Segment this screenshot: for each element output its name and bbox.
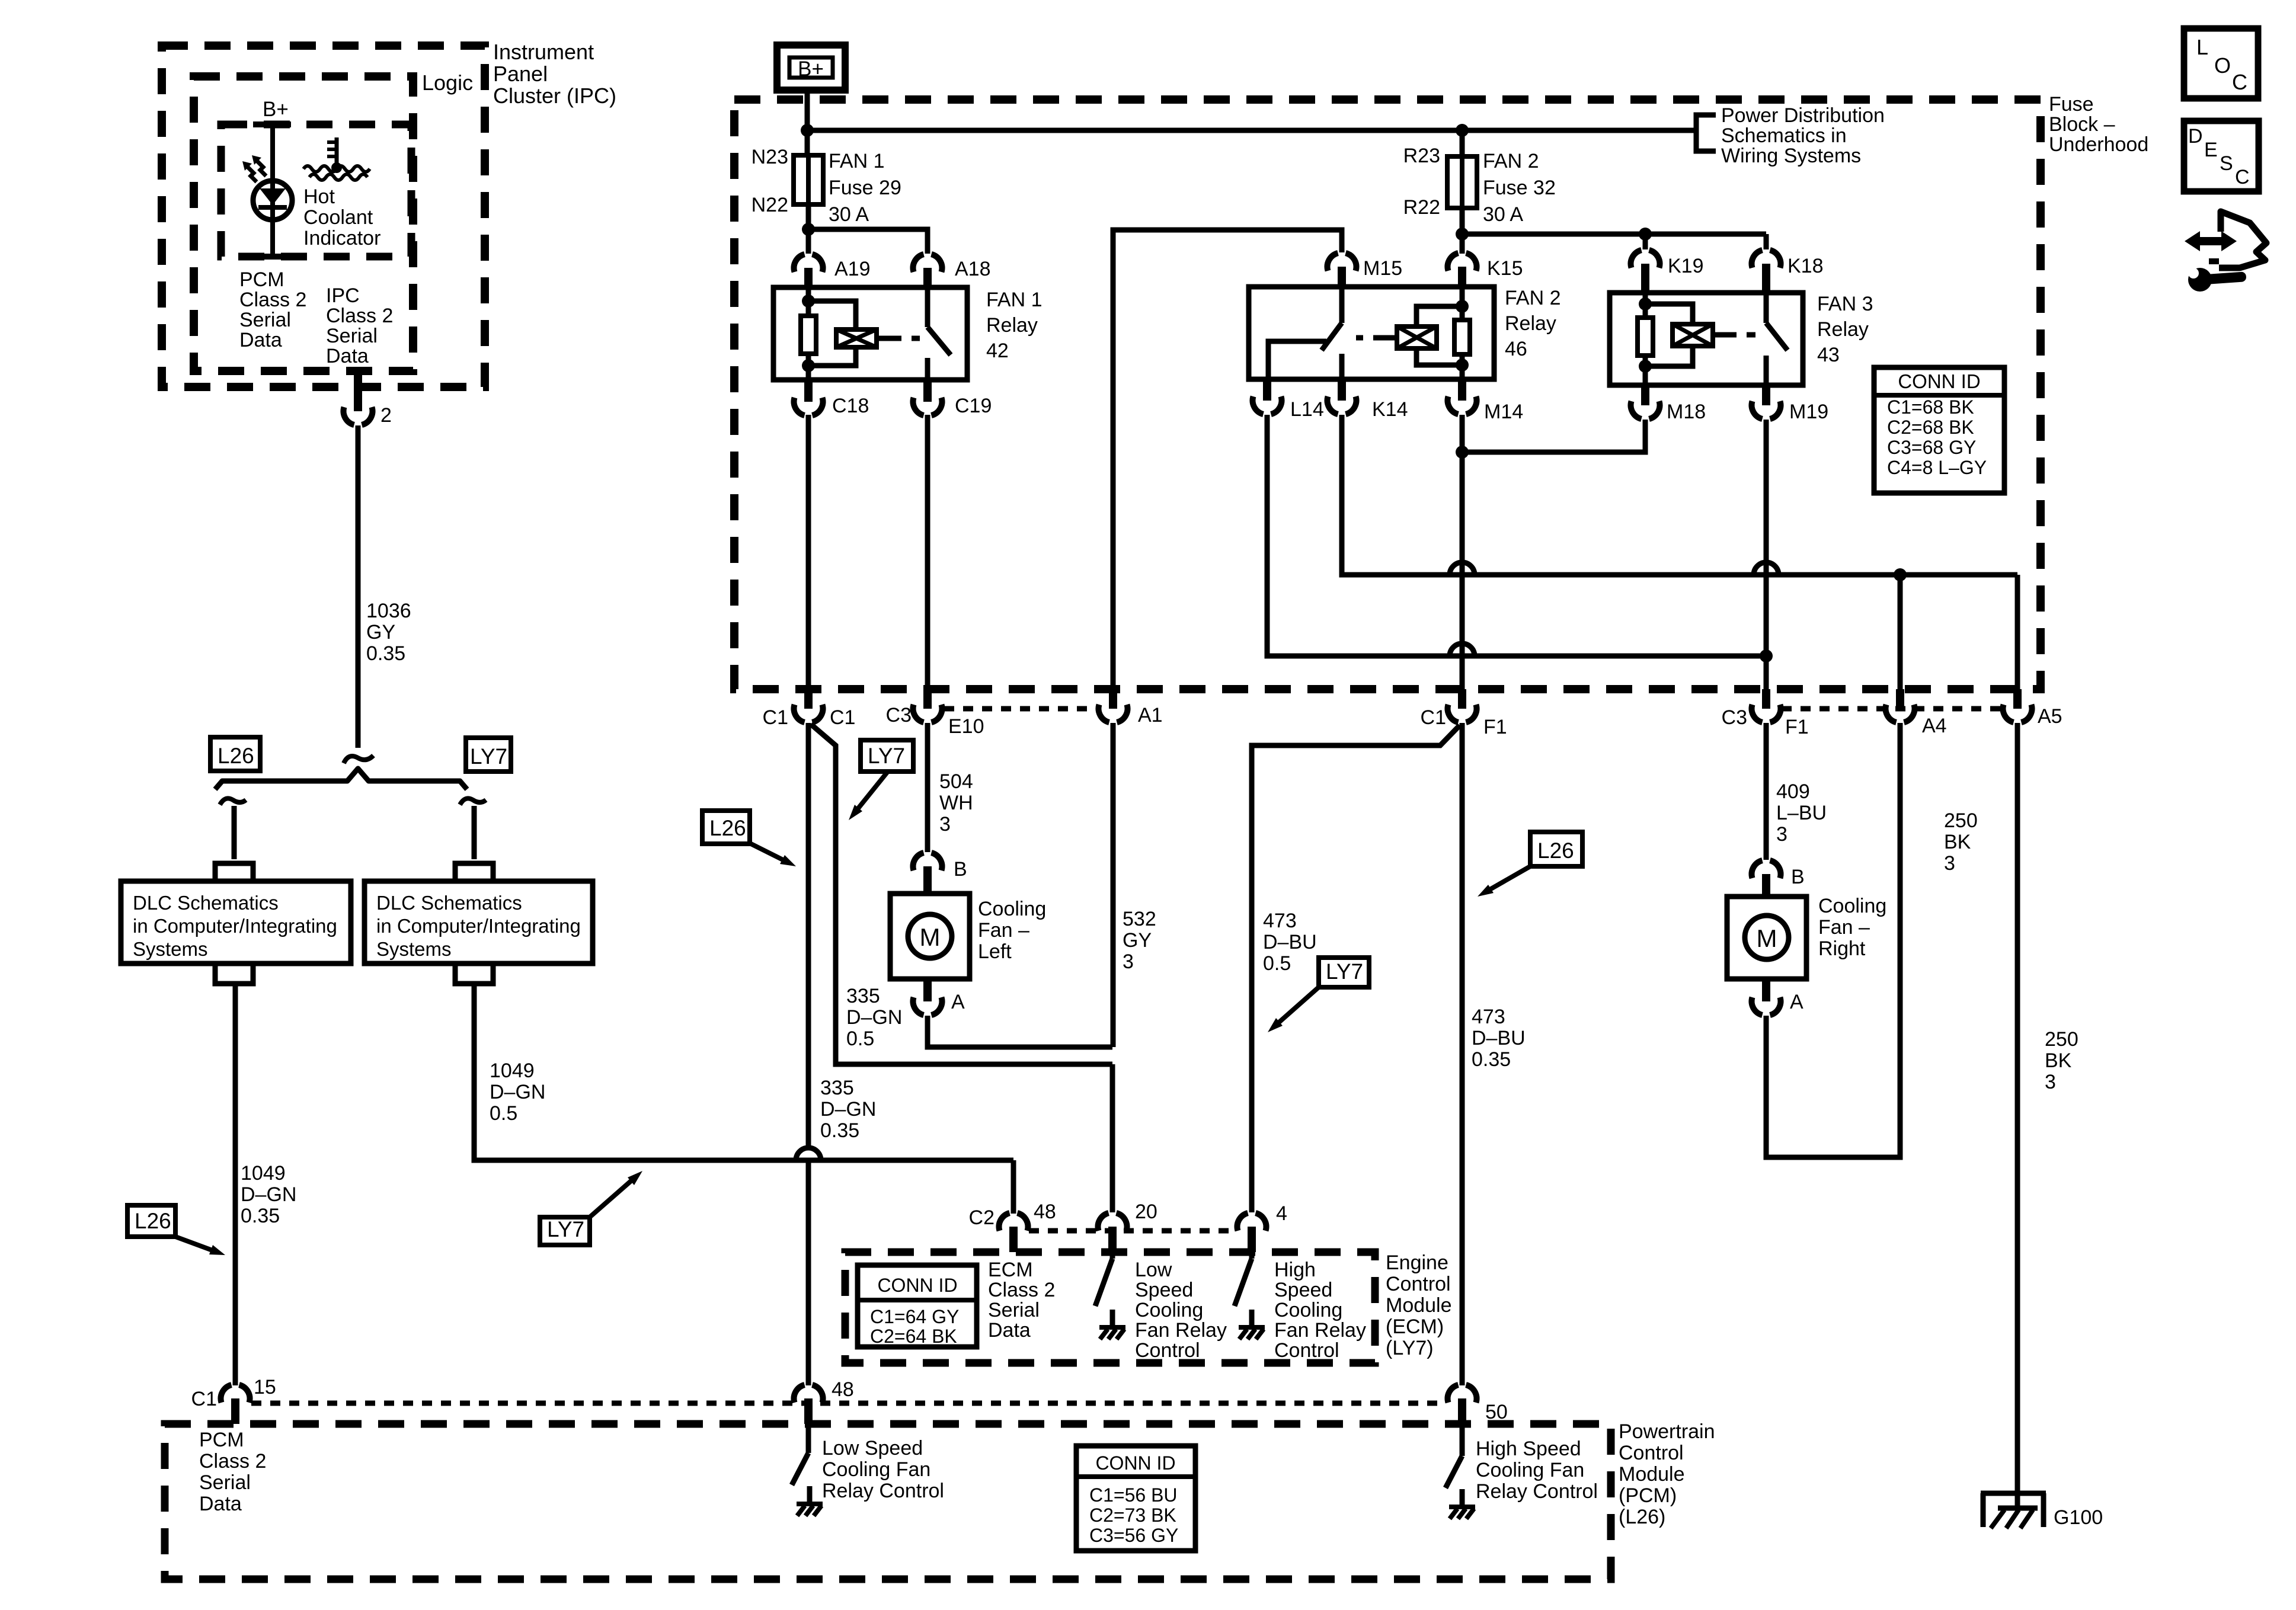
- relay K46 FAN 2 Relay box: [1249, 287, 1494, 379]
- svg-text:in Computer/Integrating: in Computer/Integrating: [376, 915, 581, 937]
- svg-text:A18: A18: [955, 258, 991, 280]
- svg-text:GY: GY: [1123, 929, 1152, 952]
- wire: splice to right DLC branch: [472, 806, 477, 859]
- box: hot coolant indicator cell: [221, 124, 411, 257]
- svg-text:C: C: [2232, 70, 2247, 94]
- svg-text:E: E: [2204, 139, 2218, 161]
- svg-text:Serial: Serial: [239, 309, 291, 331]
- svg-text:R22: R22: [1403, 196, 1440, 219]
- wire 409 L-BU from C3/F1 to right fan B: [1764, 723, 1769, 860]
- wire 473 D-BU 0.35 from C1/F1 to PCM 50: [1460, 723, 1465, 1385]
- wire C1 branch to ECM 20 (LY7): [811, 724, 1112, 1064]
- svg-text:42: 42: [986, 340, 1009, 362]
- bar: LED cathode rail: [253, 254, 291, 260]
- wire fuse29 to relay42 junction: [806, 204, 811, 229]
- wire 504 WH from E10 to left fan B: [925, 723, 930, 852]
- svg-text:Control: Control: [1386, 1273, 1451, 1295]
- svg-text:Cooling: Cooling: [1135, 1299, 1203, 1321]
- svg-text:Fan Relay: Fan Relay: [1274, 1319, 1366, 1342]
- wire 532 GY from A1: [1111, 723, 1116, 1047]
- arrow LY7 to wire: [590, 1179, 634, 1217]
- box: Powertrain Control Module (PCM): [165, 1424, 1611, 1579]
- splice break hook at top of bus: [344, 756, 373, 763]
- svg-text:(PCM): (PCM): [1619, 1484, 1677, 1507]
- connector A4: [1896, 689, 1904, 709]
- connector A1: [1109, 689, 1117, 709]
- wire fuse29 feed: [805, 130, 810, 155]
- svg-text:C3: C3: [886, 704, 912, 726]
- svg-text:Module: Module: [1386, 1294, 1452, 1317]
- wire M18 coil return to M14: [1462, 420, 1645, 452]
- terminal C19: [923, 380, 932, 402]
- box: Fuse Block - Underhood: [734, 100, 2041, 689]
- svg-text:0.35: 0.35: [1472, 1048, 1511, 1071]
- wire junction to A18: [808, 229, 928, 254]
- svg-text:250: 250: [2045, 1028, 2078, 1051]
- svg-text:PCM: PCM: [199, 1429, 244, 1451]
- svg-text:3: 3: [1776, 823, 1787, 846]
- svg-text:Relay: Relay: [1817, 318, 1869, 341]
- svg-text:D–GN: D–GN: [490, 1081, 545, 1103]
- motor: Cooling Fan - Right: [1727, 897, 1806, 979]
- wire M14 to fuse block connector C1/F1: [1460, 415, 1465, 689]
- svg-text:D–BU: D–BU: [1263, 931, 1317, 953]
- svg-text:FAN 3: FAN 3: [1817, 293, 1873, 315]
- dotted connector line PCM: [251, 1401, 1446, 1406]
- svg-text:Serial: Serial: [988, 1299, 1040, 1321]
- wire B+ to rail: [805, 90, 810, 130]
- connector pin 48 (PCM): [794, 1385, 823, 1403]
- svg-text:Cooling Fan: Cooling Fan: [1476, 1459, 1584, 1481]
- svg-text:Wiring Systems: Wiring Systems: [1721, 145, 1861, 167]
- svg-text:Low: Low: [1135, 1259, 1172, 1281]
- svg-text:R23: R23: [1403, 145, 1440, 167]
- svg-text:48: 48: [1034, 1201, 1056, 1223]
- svg-text:Powertrain: Powertrain: [1619, 1420, 1715, 1443]
- relay43 switch: [1764, 293, 1769, 323]
- node B+ (battery feed): [777, 45, 845, 90]
- svg-text:C2=68 BK: C2=68 BK: [1887, 417, 1974, 438]
- conn id table (PCM): [1076, 1446, 1195, 1551]
- fuse F29 FAN 1 30A: [794, 155, 823, 204]
- svg-text:C1: C1: [763, 706, 788, 729]
- svg-text:G100: G100: [2054, 1506, 2103, 1529]
- svg-text:C1: C1: [191, 1388, 217, 1410]
- wire 1049 D-GN 0.5 to ECM C2-48: [474, 984, 1013, 1160]
- svg-text:WH: WH: [939, 792, 973, 814]
- svg-text:0.35: 0.35: [366, 642, 405, 665]
- svg-text:250: 250: [1944, 809, 1978, 832]
- svg-text:Class 2: Class 2: [988, 1279, 1055, 1301]
- relay42 coil branch wires: [806, 287, 811, 301]
- svg-text:Fuse 32: Fuse 32: [1483, 177, 1556, 199]
- indicator LED - hot coolant: [253, 181, 292, 220]
- svg-text:335: 335: [846, 985, 880, 1007]
- conn id table (ECM): [858, 1265, 977, 1347]
- svg-text:1049: 1049: [490, 1060, 535, 1082]
- svg-text:Fan Relay: Fan Relay: [1135, 1319, 1227, 1342]
- svg-text:Relay: Relay: [986, 314, 1038, 337]
- wire fuse32 feed: [1460, 130, 1465, 156]
- code box L26 (right): [1530, 832, 1582, 866]
- wire L14 to right fan feed: [1267, 415, 1766, 656]
- wire: IPC lamp feed: [270, 124, 275, 254]
- svg-text:30 A: 30 A: [829, 203, 869, 226]
- svg-text:43: 43: [1817, 344, 1840, 366]
- svg-text:M: M: [920, 923, 941, 951]
- svg-text:L–BU: L–BU: [1776, 802, 1827, 824]
- relay K43 FAN 3 Relay box: [1610, 293, 1803, 385]
- svg-text:Power Distribution: Power Distribution: [1721, 104, 1885, 127]
- dotted connector line E10-A1: [944, 706, 1098, 712]
- svg-text:Control: Control: [1135, 1339, 1200, 1362]
- relay43 coil branch: [1643, 293, 1648, 304]
- wire to A4: [1898, 575, 1903, 689]
- svg-text:Cooling: Cooling: [1274, 1299, 1342, 1321]
- wire to K18: [1764, 234, 1769, 249]
- wire K14 to ground feeds A4/A5: [1342, 415, 2017, 575]
- terminal B (right fan): [1752, 860, 1781, 878]
- wire 335 D-GN 0.35 from C1 to PCM 48: [806, 723, 811, 1148]
- svg-text:LY7: LY7: [547, 1217, 584, 1241]
- box: DLC Schematics (ECM LY7): [364, 881, 593, 964]
- svg-text:Logic: Logic: [422, 71, 473, 95]
- svg-text:C: C: [2235, 166, 2250, 188]
- svg-text:409: 409: [1776, 780, 1810, 803]
- svg-text:473: 473: [1472, 1006, 1505, 1028]
- svg-text:Systems: Systems: [376, 938, 452, 960]
- svg-text:0.5: 0.5: [1263, 952, 1291, 975]
- svg-text:LY7: LY7: [1326, 959, 1363, 984]
- terminal M14: [1458, 379, 1466, 401]
- terminal A (left fan): [923, 979, 932, 1001]
- svg-text:Serial: Serial: [199, 1471, 251, 1494]
- svg-text:High: High: [1274, 1259, 1316, 1281]
- svg-text:(L26): (L26): [1619, 1506, 1665, 1528]
- svg-text:50: 50: [1485, 1401, 1508, 1423]
- wire to A5: [2015, 575, 2020, 689]
- relay42 switch: [925, 287, 930, 327]
- node B+ (IPC): [253, 121, 291, 127]
- svg-text:Relay Control: Relay Control: [822, 1480, 944, 1502]
- conn id table (fuse block): [1874, 367, 2004, 493]
- svg-text:A19: A19: [834, 258, 871, 280]
- wire 335 D-GN 0.5 fan A to A1/532: [928, 1016, 1112, 1047]
- svg-text:Cooling: Cooling: [978, 898, 1046, 920]
- svg-text:(ECM): (ECM): [1386, 1315, 1444, 1338]
- switch: ECM high speed relay driver: [1249, 1252, 1255, 1259]
- svg-text:E10: E10: [948, 715, 984, 738]
- svg-text:Relay Control: Relay Control: [1476, 1480, 1598, 1503]
- svg-text:0.35: 0.35: [820, 1119, 859, 1142]
- arrow L26 to wire: [175, 1237, 214, 1251]
- svg-text:Cluster (IPC): Cluster (IPC): [493, 84, 616, 108]
- icon: coolant thermometer: [335, 137, 339, 167]
- relay46 resistor: [1454, 320, 1470, 354]
- terminal K19: [1631, 250, 1660, 268]
- svg-text:L26: L26: [709, 816, 746, 840]
- svg-text:Fan –: Fan –: [1818, 916, 1870, 939]
- svg-text:B: B: [1791, 866, 1805, 888]
- connector pin 4 (ECM): [1237, 1213, 1267, 1231]
- wire: splice to left DLC branch: [232, 806, 237, 859]
- box: Instrument Panel Cluster (IPC): [162, 46, 485, 387]
- svg-text:C1=56 BU: C1=56 BU: [1089, 1484, 1178, 1506]
- svg-text:C2: C2: [969, 1206, 994, 1229]
- svg-text:30 A: 30 A: [1483, 203, 1523, 226]
- svg-text:C3=68 GY: C3=68 GY: [1887, 437, 1976, 458]
- svg-text:CONN ID: CONN ID: [1095, 1452, 1175, 1474]
- svg-text:LY7: LY7: [470, 744, 507, 769]
- svg-text:N22: N22: [752, 194, 788, 216]
- svg-text:CONN ID: CONN ID: [1898, 370, 1980, 392]
- svg-text:(LY7): (LY7): [1386, 1337, 1434, 1359]
- svg-text:A: A: [951, 991, 965, 1013]
- svg-text:M18: M18: [1667, 401, 1706, 423]
- ground (ECM high speed): [1239, 1325, 1265, 1330]
- legend box DESC: [2184, 121, 2259, 191]
- svg-text:C4=8 L–GY: C4=8 L–GY: [1887, 457, 1987, 478]
- svg-text:Left: Left: [978, 940, 1012, 963]
- terminal bracket below right DLC box: [455, 964, 493, 984]
- svg-text:GY: GY: [366, 621, 395, 644]
- terminal A18: [913, 254, 942, 272]
- svg-text:L26: L26: [1537, 838, 1574, 863]
- svg-text:Data: Data: [326, 345, 369, 367]
- svg-text:L14: L14: [1290, 398, 1324, 421]
- wire 473 D-BU 0.5 branch to ECM 4: [1252, 725, 1460, 1212]
- svg-text:473: 473: [1263, 910, 1297, 932]
- svg-text:Class 2: Class 2: [239, 289, 306, 311]
- wire junction to A19: [806, 229, 811, 254]
- terminal M15: [1328, 253, 1357, 271]
- svg-text:C1: C1: [830, 706, 855, 729]
- svg-text:L: L: [2196, 35, 2208, 59]
- svg-text:A4: A4: [1922, 715, 1947, 737]
- svg-text:Cooling: Cooling: [1818, 895, 1886, 917]
- icon: double arrow with wrench: [2185, 231, 2237, 251]
- svg-text:M: M: [1757, 924, 1777, 952]
- svg-text:K18: K18: [1787, 255, 1824, 277]
- connector C2 pin 48 (ECM): [999, 1213, 1028, 1231]
- svg-text:Hot: Hot: [303, 185, 335, 208]
- svg-text:46: 46: [1505, 338, 1527, 360]
- wire M19 to connector C3/F1: [1764, 420, 1769, 689]
- terminal L14: [1263, 379, 1271, 401]
- svg-text:D: D: [2188, 125, 2203, 148]
- code box LY7 (right): [1319, 958, 1369, 987]
- terminal M19: [1762, 385, 1770, 405]
- svg-text:PCM: PCM: [239, 268, 284, 291]
- svg-text:1049: 1049: [241, 1162, 286, 1185]
- svg-text:C19: C19: [955, 395, 992, 417]
- svg-text:Class 2: Class 2: [326, 305, 393, 327]
- wire 250 BK from A5 to G100: [2015, 723, 2020, 1493]
- svg-text:Serial: Serial: [326, 325, 378, 347]
- svg-text:15: 15: [254, 1376, 276, 1398]
- terminal C18: [804, 380, 813, 402]
- svg-text:High Speed: High Speed: [1476, 1438, 1581, 1460]
- svg-text:FAN 1: FAN 1: [986, 289, 1042, 311]
- off-page bracket to Power Distribution: [1696, 115, 1716, 151]
- ground (ECM low speed): [1099, 1325, 1125, 1330]
- svg-text:L26: L26: [218, 744, 254, 768]
- splice drop hook left: [220, 798, 246, 805]
- svg-text:IPC: IPC: [326, 284, 360, 307]
- ground (PCM high speed): [1449, 1505, 1475, 1509]
- svg-text:D–BU: D–BU: [1472, 1027, 1526, 1049]
- terminal bracket above left DLC box: [215, 863, 253, 881]
- svg-text:Control: Control: [1274, 1339, 1339, 1362]
- connector C1 (fuse block / harness): [804, 689, 813, 709]
- relay43 coil: [1645, 304, 1693, 324]
- svg-text:Indicator: Indicator: [303, 227, 380, 249]
- svg-text:DLC Schematics: DLC Schematics: [133, 892, 279, 914]
- ground G100: [1981, 1491, 2046, 1496]
- svg-text:3: 3: [2045, 1071, 2056, 1093]
- box: Engine Control Module (ECM): [845, 1252, 1375, 1363]
- svg-text:C18: C18: [832, 395, 869, 417]
- svg-text:3: 3: [939, 813, 951, 836]
- svg-text:A: A: [1790, 991, 1803, 1013]
- svg-text:C1: C1: [1421, 706, 1446, 729]
- code box LY7 (serial data wire): [540, 1217, 590, 1245]
- connector C1 / F1 (right): [1458, 689, 1466, 709]
- svg-text:Data: Data: [239, 329, 282, 351]
- splice drop hook right: [460, 798, 486, 805]
- svg-text:FAN 1: FAN 1: [829, 150, 884, 172]
- svg-text:Underhood: Underhood: [2049, 133, 2148, 156]
- svg-text:4: 4: [1276, 1202, 1287, 1225]
- svg-text:Speed: Speed: [1274, 1279, 1332, 1301]
- svg-text:D–GN: D–GN: [820, 1098, 876, 1121]
- code box L26 (low speed relay wire): [702, 811, 750, 844]
- arrow L26 upper to wire: [749, 843, 785, 861]
- svg-text:FAN 2: FAN 2: [1505, 287, 1560, 309]
- arrow L26 right to wire: [1488, 866, 1530, 891]
- svg-text:Relay: Relay: [1505, 312, 1556, 335]
- arrow LY7 upper to wire: [856, 772, 888, 811]
- wire 1036 GY from IPC pin 2: [356, 425, 361, 748]
- svg-text:F1: F1: [1483, 716, 1507, 738]
- svg-text:K19: K19: [1668, 255, 1704, 277]
- relay46 coil branch: [1460, 287, 1465, 306]
- svg-text:D–GN: D–GN: [846, 1006, 902, 1029]
- svg-text:3: 3: [1944, 852, 1955, 875]
- terminal A19: [794, 254, 823, 272]
- dotted connector line F1-A4-A5: [1782, 706, 2002, 712]
- terminal M18: [1641, 385, 1649, 405]
- arrow LY7 right to wire: [1277, 987, 1319, 1025]
- connector pin 50 (PCM): [1448, 1385, 1477, 1403]
- svg-text:B: B: [954, 858, 967, 881]
- wire C18 to connector C1: [806, 415, 811, 689]
- svg-text:A5: A5: [2038, 705, 2062, 728]
- relay46 switch: [1339, 287, 1345, 323]
- splice bus S211: [215, 769, 467, 789]
- svg-text:0.35: 0.35: [241, 1205, 280, 1227]
- svg-text:M14: M14: [1484, 401, 1523, 423]
- svg-text:K15: K15: [1487, 257, 1523, 280]
- svg-text:1036: 1036: [366, 600, 411, 622]
- switch: PCM low speed relay driver: [806, 1425, 811, 1453]
- svg-text:in Computer/Integrating: in Computer/Integrating: [133, 915, 337, 937]
- svg-text:335: 335: [820, 1077, 854, 1099]
- svg-text:C2=64 BK: C2=64 BK: [870, 1326, 957, 1347]
- svg-text:BK: BK: [1944, 831, 1971, 853]
- code box LY7 (upper): [861, 740, 913, 772]
- ground (PCM low speed): [797, 1502, 823, 1506]
- connector A5: [2013, 689, 2022, 709]
- svg-text:FAN 2: FAN 2: [1483, 150, 1539, 172]
- svg-text:Right: Right: [1818, 937, 1866, 960]
- svg-text:LY7: LY7: [868, 744, 905, 768]
- connector C3 / E10: [923, 689, 932, 709]
- svg-text:Systems: Systems: [133, 938, 208, 960]
- svg-text:532: 532: [1123, 908, 1156, 930]
- svg-text:Low Speed: Low Speed: [822, 1437, 923, 1459]
- terminal bracket above right DLC box: [455, 863, 493, 881]
- svg-text:Fuse: Fuse: [2049, 93, 2094, 116]
- connector C1 pin 15 (PCM): [221, 1385, 250, 1403]
- svg-text:Panel: Panel: [493, 62, 548, 86]
- code box LY7 (splice): [466, 738, 511, 772]
- motor: Cooling Fan - Left: [890, 894, 970, 979]
- wire to K19: [1643, 234, 1648, 249]
- svg-text:2: 2: [380, 404, 392, 427]
- switch: PCM high speed relay driver: [1460, 1425, 1465, 1456]
- svg-text:L26: L26: [135, 1209, 171, 1233]
- switch: ECM low speed relay driver: [1110, 1252, 1115, 1259]
- fuse F32 FAN 2 30A: [1447, 156, 1477, 208]
- code box L26 (splice): [210, 737, 260, 771]
- relay K42 FAN 1 Relay box: [773, 287, 967, 380]
- terminal bracket below left DLC box: [215, 964, 253, 984]
- svg-text:Class 2: Class 2: [199, 1450, 266, 1473]
- svg-text:Speed: Speed: [1135, 1279, 1193, 1301]
- svg-text:Module: Module: [1619, 1463, 1685, 1486]
- svg-text:C1=64 GY: C1=64 GY: [870, 1306, 959, 1327]
- terminal K14: [1338, 379, 1346, 401]
- svg-text:Instrument: Instrument: [493, 40, 594, 64]
- svg-text:20: 20: [1135, 1201, 1157, 1223]
- relay43 coil-switch link (dashed): [1713, 332, 1722, 338]
- svg-text:CONN ID: CONN ID: [877, 1275, 957, 1296]
- box: DLC Schematics (PCM L26): [121, 881, 351, 964]
- svg-text:Schematics in: Schematics in: [1721, 124, 1847, 147]
- svg-text:B+: B+: [798, 57, 824, 81]
- connector 2 (IPC): [354, 367, 362, 411]
- terminal A (right fan): [1762, 979, 1770, 1001]
- relay46 coil-switch link (dashed): [1387, 335, 1397, 341]
- terminal K15: [1448, 253, 1477, 271]
- svg-text:Control: Control: [1619, 1442, 1684, 1464]
- svg-text:C2=73 BK: C2=73 BK: [1089, 1505, 1176, 1526]
- wire A1 to M15 branch: [1113, 230, 1342, 689]
- relay46 coil: [1416, 306, 1462, 327]
- relay42 coil: [808, 301, 856, 329]
- svg-text:M15: M15: [1363, 257, 1402, 280]
- connector pin 20 (ECM): [1098, 1213, 1127, 1231]
- wire junction to K15: [1460, 234, 1465, 254]
- svg-text:S: S: [2220, 152, 2233, 175]
- connector C3 / F1 (right): [1762, 689, 1770, 709]
- box: Logic: [194, 76, 413, 371]
- svg-text:Coolant: Coolant: [303, 206, 373, 229]
- svg-text:504: 504: [939, 770, 973, 793]
- svg-text:F1: F1: [1785, 716, 1809, 738]
- svg-text:N23: N23: [752, 146, 788, 168]
